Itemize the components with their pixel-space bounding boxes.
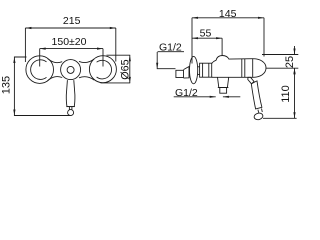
svg-text:G1/2: G1/2 (175, 87, 198, 99)
svg-text:G1/2: G1/2 (159, 41, 182, 53)
svg-text:135: 135 (1, 76, 13, 94)
svg-text:145: 145 (219, 8, 237, 20)
svg-text:110: 110 (280, 85, 292, 103)
svg-text:55: 55 (200, 28, 212, 40)
svg-text:215: 215 (63, 15, 81, 27)
svg-text:25: 25 (284, 56, 296, 68)
svg-text:150±20: 150±20 (52, 36, 87, 48)
svg-text:Ø65: Ø65 (120, 59, 132, 79)
